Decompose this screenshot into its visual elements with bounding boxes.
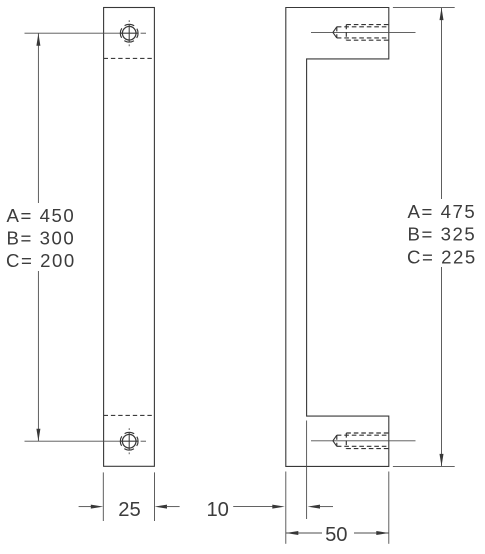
- label 50 mask: [322, 523, 354, 543]
- top tapped hole thread depth hidden line: [345, 25, 347, 41]
- dim 50: extension line right: [388, 472, 390, 544]
- bottom hole thread dashed circle: [120, 432, 138, 450]
- top tapped hole minor diameter hidden lines: [337, 26, 389, 28]
- dim 50: dimension line: [286, 532, 389, 534]
- side view: C-profile outline: [286, 8, 389, 467]
- dim A475 arrow up: [440, 8, 444, 21]
- bottom tapped hole centerline: [311, 440, 416, 442]
- dim A475 leader top: [393, 7, 455, 9]
- side view: top tapped hole: [311, 25, 416, 41]
- dim 25: left tail and arrow: [79, 506, 92, 508]
- label block right: white mask: [404, 199, 482, 267]
- top hole circle: [122, 26, 136, 40]
- dim A475 leader bottom: [393, 465, 455, 467]
- dim 10: left arrow: [272, 505, 285, 509]
- svg-text:50: 50: [325, 524, 347, 546]
- top hole vertical centerline: [128, 20, 130, 22]
- bottom tapped hole thread depth hidden line: [345, 433, 347, 449]
- svg-text:A= 475: A= 475: [408, 201, 477, 222]
- svg-text:C= 225: C= 225: [407, 246, 477, 267]
- dim 10: right arrow: [308, 505, 321, 509]
- front view: bar outline: [104, 8, 155, 467]
- label block left: white mask: [2, 203, 78, 271]
- dim A450 arrow down: [36, 429, 40, 442]
- dim 50: right arrow: [376, 531, 389, 535]
- dim A475 vertical dimension line: [441, 8, 443, 467]
- svg-text:A= 450: A= 450: [7, 205, 76, 226]
- svg-text:10: 10: [206, 499, 228, 521]
- dim A450 arrow up: [36, 33, 40, 46]
- svg-text:B= 300: B= 300: [7, 227, 76, 248]
- top tapped hole centerline: [311, 31, 416, 33]
- bottom hole circle: [122, 434, 136, 448]
- dim A450 vertical dimension line: [37, 33, 39, 441]
- dim 10: right tail: [319, 506, 333, 508]
- dim 10: extension line inner: [306, 421, 308, 520]
- svg-text:B= 325: B= 325: [408, 224, 477, 245]
- dim A450 leader top: [25, 32, 139, 34]
- top tapped hole drill cone: [333, 27, 337, 38]
- dim 25: extension line right: [154, 472, 156, 521]
- dim 25: right arrow and tail: [155, 505, 168, 509]
- side view: bottom tapped hole: [311, 433, 416, 449]
- front view: top hole center: [120, 20, 138, 46]
- dim A450 leader bottom: [25, 440, 139, 442]
- top hole horizontal centerline through (merged with leader): [121, 32, 139, 34]
- dim 50: left arrow: [286, 531, 299, 535]
- bottom tapped hole drill cone: [333, 435, 337, 446]
- bottom hole horizontal centerline through: [121, 440, 139, 442]
- bottom hole vertical centerline: [128, 428, 130, 430]
- top tapped hole major diameter hidden lines: [346, 24, 389, 26]
- svg-text:C= 200: C= 200: [6, 250, 76, 271]
- front view: bottom hole center: [120, 428, 138, 454]
- front view: hidden line bottom: [104, 414, 155, 416]
- dim 10: tail from text: [233, 506, 273, 508]
- dim A475 arrow down: [440, 454, 444, 467]
- dim 25: extension line left: [102, 472, 104, 521]
- bottom tapped hole minor diameter hidden lines: [337, 434, 389, 436]
- front view: hidden line top: [104, 57, 155, 59]
- dim 50: extension line left (outer edge): [285, 472, 287, 544]
- svg-text:25: 25: [118, 499, 140, 521]
- bottom tapped hole major diameter hidden lines: [346, 432, 389, 434]
- top hole thread dashed circle: [120, 24, 138, 42]
